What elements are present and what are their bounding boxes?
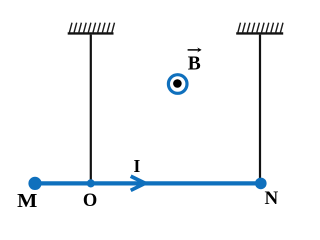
node M: [28, 177, 41, 190]
svg-text:B: B: [188, 53, 201, 74]
svg-text:O: O: [83, 191, 97, 211]
left support bar: [68, 32, 114, 34]
vector arrow over B: [188, 49, 201, 51]
right wire (from support to N): [259, 35, 261, 182]
svg-text:I: I: [133, 156, 140, 176]
right support hatching: [238, 23, 283, 33]
field direction symbol (B out of page): [168, 75, 187, 94]
node N: [255, 178, 267, 190]
left wire (from support to O): [90, 35, 92, 182]
node O: [87, 179, 95, 187]
svg-text:N: N: [265, 188, 279, 209]
rod MN: [35, 181, 261, 185]
current arrowhead: [131, 176, 146, 190]
svg-text:M: M: [17, 190, 37, 212]
right support bar: [236, 32, 283, 34]
left support hatching: [69, 23, 114, 33]
